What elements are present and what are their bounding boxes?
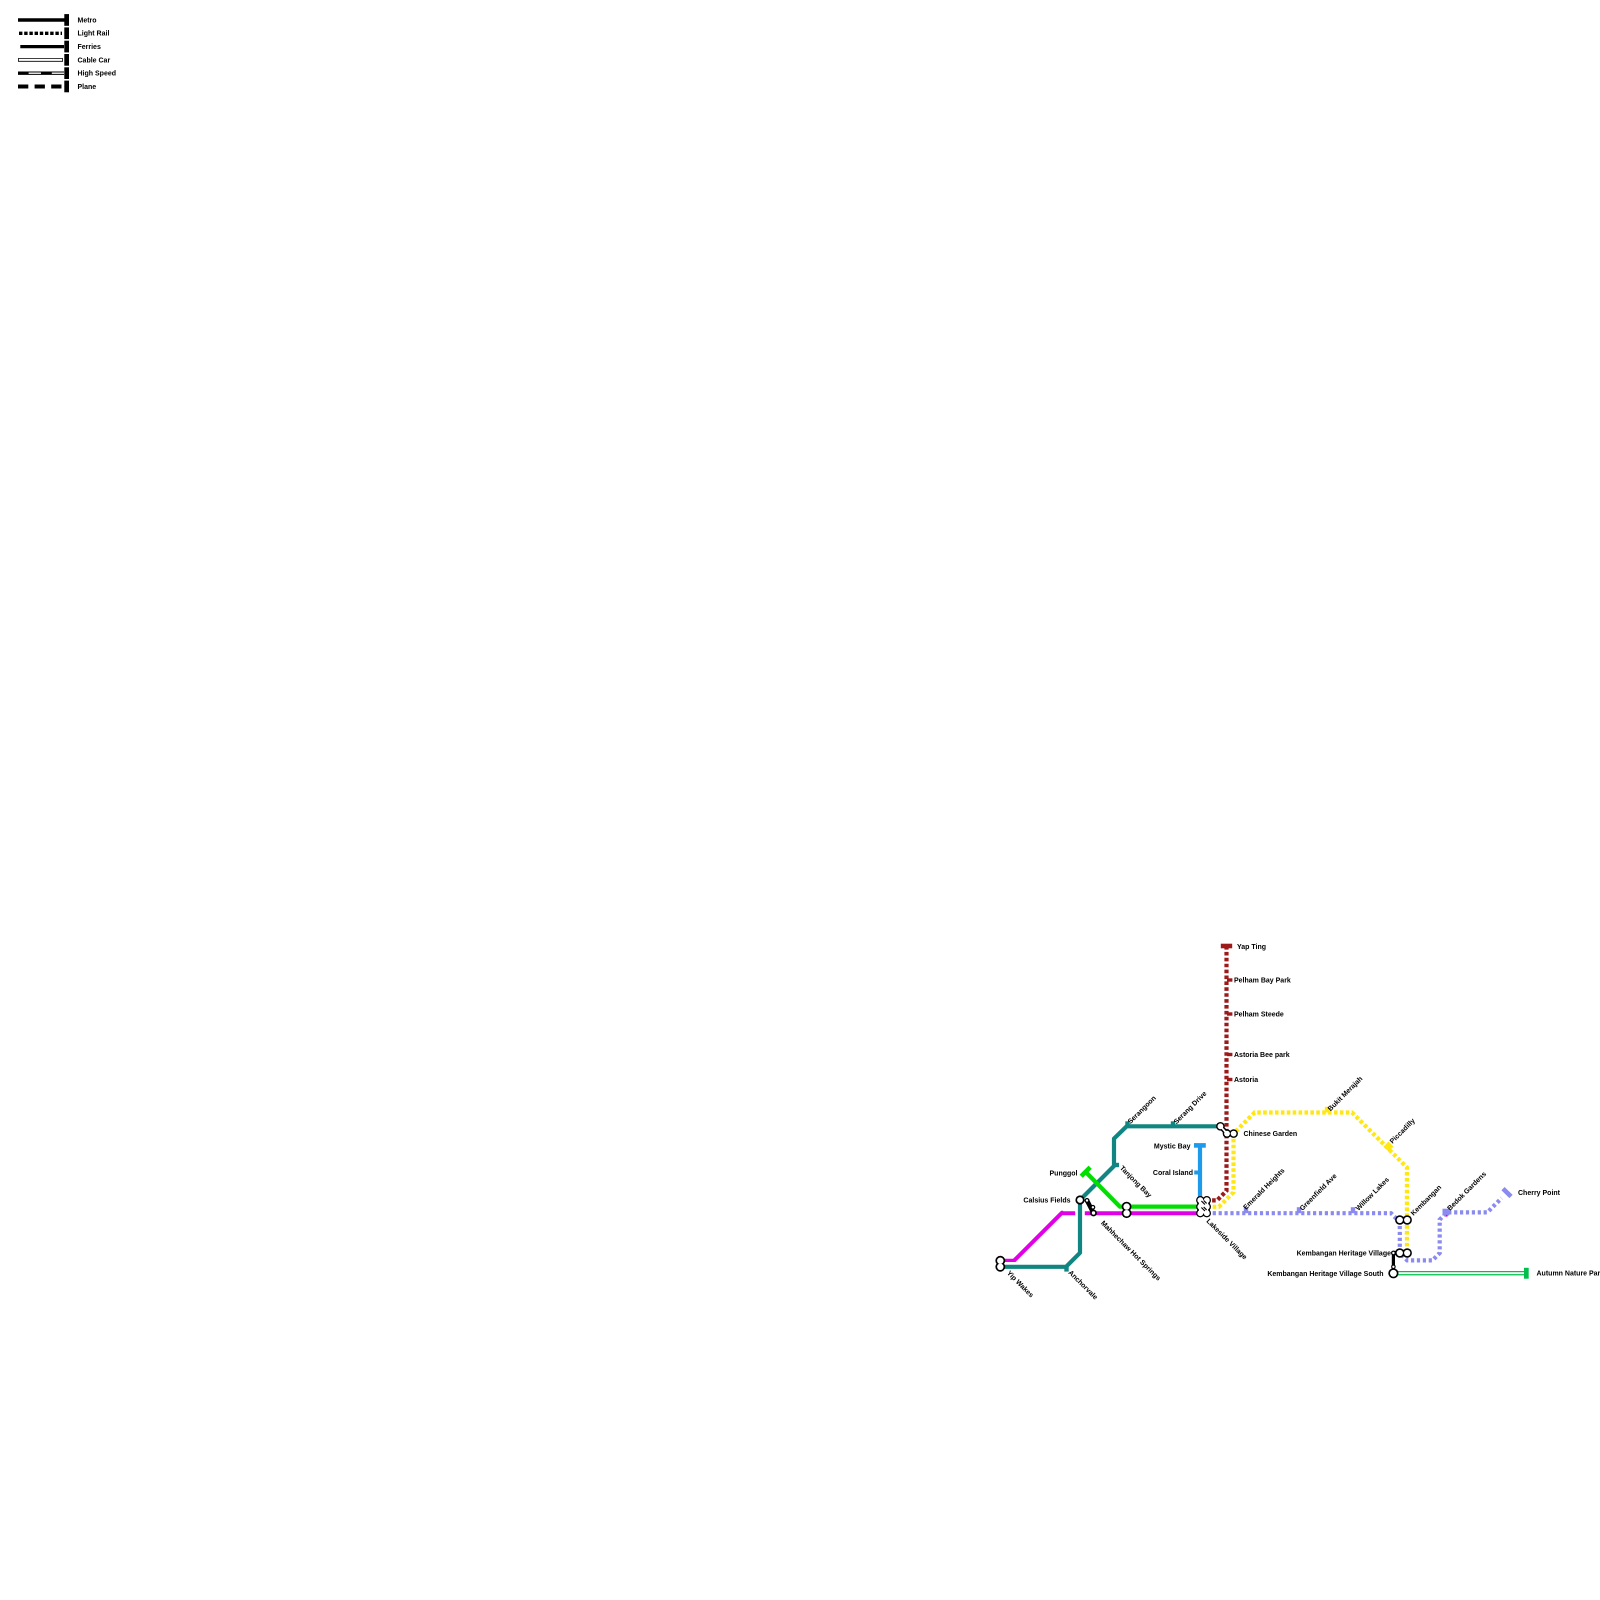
svg-text:Cherry Point: Cherry Point: [1518, 1190, 1561, 1197]
svg-text:Kembangan Heritage Village: Kembangan Heritage Village: [1297, 1251, 1392, 1258]
svg-text:Kembangan Heritage Village Sou: Kembangan Heritage Village South: [1267, 1271, 1383, 1278]
svg-text:High Speed: High Speed: [78, 71, 117, 78]
svg-text:Plane: Plane: [78, 84, 97, 91]
svg-text:Ferries: Ferries: [78, 44, 101, 51]
svg-text:Autumn Nature Park: Autumn Nature Park: [1537, 1271, 1600, 1278]
svg-text:Metro: Metro: [78, 17, 97, 24]
svg-text:Punggol: Punggol: [1050, 1171, 1078, 1178]
svg-text:Yap Ting: Yap Ting: [1237, 944, 1266, 951]
svg-text:Coral Island: Coral Island: [1153, 1170, 1193, 1177]
svg-text:Astoria Bee park: Astoria Bee park: [1234, 1052, 1290, 1059]
svg-text:Light Rail: Light Rail: [78, 31, 110, 38]
svg-text:Pelham Steede: Pelham Steede: [1234, 1011, 1284, 1018]
svg-text:Pelham Bay Park: Pelham Bay Park: [1234, 977, 1291, 984]
svg-text:Chinese Garden: Chinese Garden: [1244, 1131, 1298, 1138]
svg-text:Cable Car: Cable Car: [78, 57, 111, 64]
svg-text:Mystic Bay: Mystic Bay: [1154, 1144, 1191, 1151]
svg-text:Calsius Fields: Calsius Fields: [1023, 1197, 1070, 1204]
svg-text:Astoria: Astoria: [1234, 1077, 1258, 1084]
